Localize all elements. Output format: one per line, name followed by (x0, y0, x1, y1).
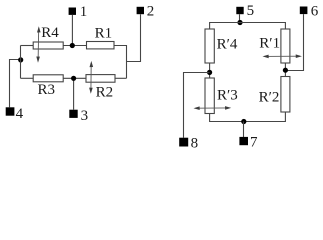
wire (127, 14, 141, 61)
wire (184, 73, 210, 138)
node 5 (236, 7, 243, 14)
wire (114, 46, 127, 79)
junction dot (241, 119, 246, 124)
wire (209, 63, 211, 78)
node 1 (69, 8, 76, 15)
wire (10, 60, 21, 108)
resistor R'2 (281, 77, 290, 113)
resistor R1 (87, 42, 115, 49)
svg-text:R′3: R′3 (217, 88, 238, 104)
svg-text:R4: R4 (41, 25, 59, 41)
junction dot (283, 68, 288, 73)
node 6 (300, 7, 308, 15)
svg-text:5: 5 (247, 3, 255, 19)
junction dot (207, 70, 212, 75)
wire (243, 122, 245, 138)
resistor R4 (33, 42, 63, 49)
svg-text:4: 4 (16, 106, 24, 122)
svg-text:2: 2 (147, 4, 155, 20)
resistor R3 (33, 75, 63, 82)
junction dot (237, 20, 242, 25)
node 2 (137, 7, 144, 14)
resistor R'1 (281, 29, 290, 63)
wiper arrow of R2 (89, 61, 93, 94)
svg-text:R′2: R′2 (259, 90, 280, 106)
svg-text:R2: R2 (96, 84, 114, 100)
wiper arrow of R'3 (194, 106, 232, 110)
wiper arrow of R4 (36, 26, 40, 62)
wire (63, 45, 86, 47)
wire (115, 77, 127, 79)
wire (210, 23, 286, 30)
wire (284, 63, 286, 77)
wire (71, 15, 73, 46)
wire (209, 114, 211, 123)
resistor R2 (86, 75, 115, 83)
junction dot (70, 43, 75, 48)
wire (73, 78, 75, 110)
wiper arrow of R'1 (263, 54, 302, 58)
wire (239, 14, 241, 22)
svg-text:R1: R1 (95, 26, 113, 42)
svg-text:R3: R3 (38, 82, 56, 98)
wire (63, 77, 86, 79)
wire (284, 112, 286, 122)
resistor R'3 (205, 78, 214, 114)
svg-text:R′4: R′4 (217, 37, 238, 53)
wire (20, 46, 22, 79)
node 7 (239, 137, 248, 145)
node 4 (6, 107, 15, 115)
wire (21, 77, 34, 79)
node 3 (69, 110, 77, 118)
svg-text:R′1: R′1 (259, 36, 280, 52)
wire (21, 45, 34, 47)
node 8 (179, 138, 188, 147)
resistor R'4 (205, 29, 214, 63)
svg-text:1: 1 (80, 4, 88, 20)
svg-text:8: 8 (191, 135, 199, 151)
junction dot (71, 76, 76, 81)
wire (210, 121, 286, 123)
junction dot (18, 57, 23, 62)
svg-text:3: 3 (81, 108, 89, 124)
wire (285, 14, 303, 70)
svg-text:6: 6 (311, 3, 319, 19)
svg-text:7: 7 (250, 135, 258, 151)
